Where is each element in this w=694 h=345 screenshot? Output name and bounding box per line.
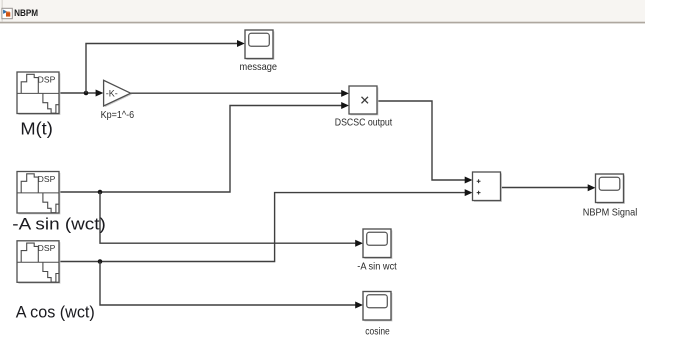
svg-text:DSCSC output: DSCSC output: [335, 118, 393, 129]
DSP source block A cos (wct): [17, 241, 60, 284]
wire product output to sum input 1: [377, 101, 467, 180]
svg-text:M(t): M(t): [20, 119, 53, 139]
svg-text:A cos (wct): A cos (wct): [16, 303, 95, 322]
tab bar separator line: [0, 22, 645, 24]
junction dot on -A sin wire: [98, 190, 103, 195]
product block DSCSC output: [349, 86, 378, 115]
scope block -A sin wct: [363, 229, 392, 259]
junction dot on A cos wire: [98, 259, 103, 264]
arrow into gain: [96, 90, 104, 97]
arrow into product input 1: [341, 90, 349, 97]
arrow into sum input 1: [465, 177, 473, 184]
sum block: [473, 172, 502, 202]
arrow into cosine scope: [355, 302, 363, 309]
wire A cos to riser to sum input 2: [59, 193, 468, 262]
wire A cos junction down to cosine scope: [100, 262, 357, 306]
svg-text:-A sin wct: -A sin wct: [357, 262, 397, 273]
arrow into -A sin wct scope: [355, 240, 363, 247]
scope block message: [245, 30, 274, 60]
svg-text:cosine: cosine: [365, 327, 390, 338]
arrow into sum input 2: [465, 189, 473, 196]
wire junction up to message scope: [86, 44, 239, 94]
wire sum output to NBPM Signal scope: [501, 187, 590, 189]
svg-text:-A sin (wct): -A sin (wct): [12, 215, 106, 234]
svg-text:Kp=1^-6: Kp=1^-6: [101, 110, 135, 121]
wire M(t) to gain: [59, 92, 99, 94]
svg-text:message: message: [240, 62, 278, 73]
gain block Kp: [104, 80, 132, 107]
DSP source block -A sin (wct): [17, 172, 60, 215]
wire -A sin junction down to -A sin wct scope: [100, 192, 357, 243]
svg-text:NBPM: NBPM: [14, 8, 38, 18]
wire -A sin to riser to product input 2: [59, 106, 344, 193]
arrow into message scope: [237, 40, 245, 47]
svg-text:NBPM Signal: NBPM Signal: [583, 208, 638, 219]
svg-text:-K-: -K-: [106, 89, 118, 99]
wire gain to product input 1: [131, 92, 343, 94]
DSP source block M(t): [17, 72, 60, 115]
scope block NBPM Signal: [596, 174, 625, 204]
arrow into product input 2: [341, 102, 349, 109]
simulink model icon: [2, 8, 12, 18]
tab bar background: [0, 0, 645, 22]
arrow into NBPM Signal scope: [588, 184, 596, 191]
junction dot on M(t) wire: [84, 91, 89, 96]
scope block cosine: [363, 292, 392, 322]
tab bar left edge line: [2, 0, 3, 22]
